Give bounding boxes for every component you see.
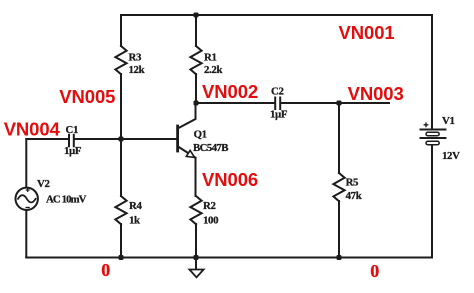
transistor Q1 collector — [178, 103, 196, 128]
battery V1 long plate 2 — [421, 137, 446, 139]
svg-text:VN002: VN002 — [202, 81, 258, 102]
wire R4 branch upper — [120, 139, 122, 196]
junction node base — [119, 137, 124, 142]
V2 plus sign — [26, 188, 30, 192]
junction node VN003/R5 — [337, 101, 342, 106]
svg-text:VN005: VN005 — [59, 86, 115, 107]
svg-text:C1: C1 — [66, 124, 79, 136]
svg-text:47k: 47k — [346, 190, 362, 202]
junction node bottom R4 — [119, 255, 124, 260]
capacitor C1 — [68, 135, 70, 147]
svg-text:1µF: 1µF — [64, 145, 82, 157]
junction node bottom gnd — [194, 255, 199, 260]
junction node top — [194, 13, 199, 18]
transistor Q1 emitter arrowhead — [186, 150, 194, 157]
wire V1 lower lead — [431, 145, 433, 258]
wire V2 upper lead — [25, 139, 27, 188]
svg-text:R2: R2 — [203, 200, 216, 212]
wire R5 branch upper — [338, 103, 340, 173]
svg-text:0: 0 — [101, 260, 110, 280]
wire V2 lower lead — [25, 210, 27, 258]
junction node bottom R5 — [337, 255, 342, 260]
transistor Q1 base bar — [176, 126, 179, 151]
wire R5 branch lower — [338, 201, 340, 258]
svg-text:VN004: VN004 — [4, 119, 61, 140]
svg-text:C2: C2 — [271, 86, 284, 98]
svg-text:12k: 12k — [129, 64, 145, 76]
wire R3 branch upper — [120, 15, 122, 46]
svg-text:V2: V2 — [37, 178, 50, 190]
wire top rail — [121, 14, 432, 16]
wire VN003 node horizontal — [281, 102, 389, 104]
capacitor C2 — [274, 98, 276, 110]
voltage source V2 circle — [16, 188, 38, 210]
wire R2 branch lower — [195, 224, 197, 258]
wire emitter to R2 — [195, 158, 197, 196]
V2 minus sign — [26, 207, 30, 209]
wire bottom rail — [26, 257, 431, 259]
resistor R5 — [333, 173, 344, 201]
ground stem — [195, 258, 197, 270]
resistor R2 — [190, 196, 201, 224]
svg-text:1k: 1k — [129, 214, 140, 226]
resistor R4 — [115, 196, 126, 224]
V2 sine wave — [18, 195, 36, 202]
svg-text:R3: R3 — [129, 52, 142, 64]
svg-text:Q1: Q1 — [194, 129, 207, 141]
svg-text:AC 10mV: AC 10mV — [46, 193, 87, 205]
battery V1 short cell 2 — [426, 141, 439, 145]
svg-text:2.2k: 2.2k — [204, 64, 222, 76]
wire base from C1 to Q1 — [75, 138, 178, 140]
resistor R1 — [190, 46, 201, 74]
battery V1 short cell 1 — [426, 132, 439, 136]
wire R4 branch lower — [120, 224, 122, 258]
svg-text:V1: V1 — [442, 115, 455, 127]
svg-text:BC547B: BC547B — [193, 142, 228, 154]
svg-text:12V: 12V — [442, 150, 460, 162]
wire VN002 node horizontal — [196, 102, 275, 104]
wire R3 branch lower — [120, 74, 122, 139]
svg-text:0: 0 — [370, 261, 379, 281]
junction node VN002 — [194, 101, 199, 106]
transistor Q1 emitter — [178, 146, 196, 157]
battery V1 plus sign — [424, 122, 429, 127]
ground triangle — [189, 270, 203, 278]
wire V1 upper lead — [431, 15, 433, 130]
svg-text:VN001: VN001 — [339, 22, 395, 43]
svg-text:VN006: VN006 — [202, 169, 258, 190]
svg-text:1µF: 1µF — [270, 109, 288, 121]
svg-text:VN003: VN003 — [348, 83, 404, 104]
svg-text:R5: R5 — [346, 177, 359, 189]
svg-text:100: 100 — [203, 214, 218, 226]
svg-text:R4: R4 — [129, 200, 142, 212]
battery V1 long plate 1 — [421, 129, 446, 131]
resistor R3 — [115, 46, 126, 74]
svg-text:R1: R1 — [204, 52, 217, 64]
wire base from V2 to C1 — [26, 138, 68, 140]
wire R1 branch lower — [195, 74, 197, 103]
wire R1 branch upper — [195, 15, 197, 46]
